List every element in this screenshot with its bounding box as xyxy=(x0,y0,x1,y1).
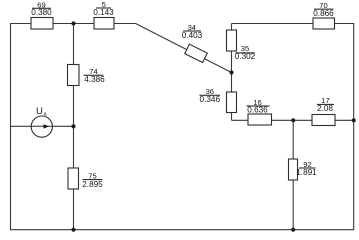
label R34 value 34/0.403 xyxy=(182,23,203,40)
junction node bottom-R92 xyxy=(291,228,295,232)
junction node top-left branch xyxy=(71,21,75,25)
label R70 value 70/0.866 xyxy=(313,1,334,18)
junction node R16-R92 xyxy=(291,118,295,122)
svg-text:U: U xyxy=(36,106,43,117)
resistor R92 body xyxy=(289,159,298,180)
voltage source circle xyxy=(31,116,52,137)
wire top-right xyxy=(232,23,355,25)
label R5 value 5/0.143 xyxy=(93,0,114,17)
resistor R34 body (rotated) xyxy=(185,44,208,62)
svg-text:0.302: 0.302 xyxy=(235,52,256,61)
svg-text:0.636: 0.636 xyxy=(247,105,268,114)
voltage source arrow xyxy=(31,124,52,128)
svg-text:1.891: 1.891 xyxy=(296,168,317,177)
label R35 value 35/0.302 xyxy=(235,44,256,61)
resistor R35 body xyxy=(227,30,237,51)
wire bottom xyxy=(10,229,354,231)
label R75 value 75/2.895 xyxy=(82,171,103,189)
label R74 value 74/4.386 xyxy=(84,67,106,84)
svg-text:0.403: 0.403 xyxy=(182,31,203,40)
label R92 value 92/1.891 xyxy=(296,160,317,177)
resistor R70 body xyxy=(313,18,335,29)
resistor R75 body xyxy=(68,168,79,189)
svg-text:0.866: 0.866 xyxy=(313,9,334,18)
svg-text:0.143: 0.143 xyxy=(93,8,114,17)
resistor R36 body xyxy=(227,92,237,113)
svg-text:0.346: 0.346 xyxy=(200,95,221,104)
label R17 value 17/2.08 xyxy=(317,96,334,113)
svg-text:4.386: 4.386 xyxy=(84,75,105,84)
junction node source-branch xyxy=(71,124,75,128)
junction node diagonal-R35 xyxy=(229,70,233,74)
svg-text:0.380: 0.380 xyxy=(31,8,52,17)
resistor R5 body xyxy=(94,18,114,30)
wire top-left xyxy=(10,23,136,25)
label R69 value 69/0.380 xyxy=(31,1,52,18)
wire diagonal xyxy=(136,24,232,73)
wire left vertical xyxy=(10,23,12,230)
label R16 value 16/0.636 xyxy=(247,98,270,115)
resistor R17 body xyxy=(312,115,335,126)
wire middle-right xyxy=(232,119,355,121)
wire right vertical xyxy=(353,23,355,230)
source label U xyxy=(36,106,48,118)
wire middle-left (source branch) xyxy=(10,125,74,127)
wire R92 vertical xyxy=(292,120,294,230)
svg-text:2.08: 2.08 xyxy=(317,104,333,113)
wire left branch vertical xyxy=(73,23,75,230)
label R36 value 36/0.346 xyxy=(200,87,221,104)
junction node right-R17 xyxy=(352,118,356,122)
resistor R16 body xyxy=(248,114,272,125)
svg-text:2.895: 2.895 xyxy=(82,180,103,189)
wire R35-R36 vertical xyxy=(231,24,233,121)
resistor R74 body xyxy=(68,65,80,86)
junction node bottom-left branch xyxy=(71,228,75,232)
resistor R69 body xyxy=(31,18,53,30)
